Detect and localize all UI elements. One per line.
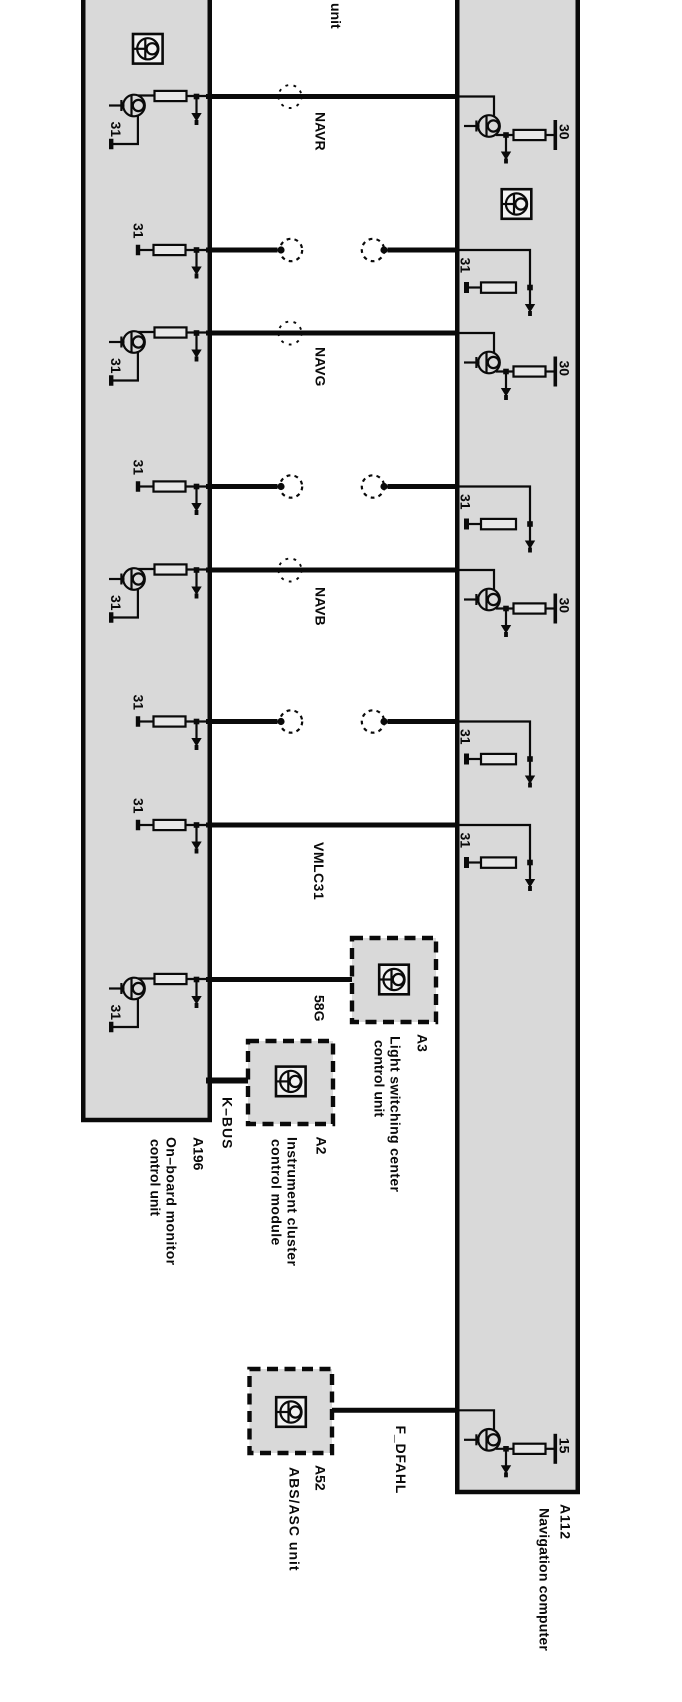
pin terminal dot (right connector)	[380, 718, 387, 725]
module symbol inside A52	[276, 1397, 306, 1427]
wire (internal, resistor to pin)	[187, 95, 214, 97]
wire (internal, circle to ground 31)	[113, 998, 138, 1028]
connector (in-line plug) on wire NAVB	[279, 559, 302, 582]
ground terminal bar 31	[109, 139, 113, 150]
svg-text:Navigation computer: Navigation computer	[537, 1508, 553, 1651]
connector socket (right) on ground wire 31	[362, 239, 384, 261]
wire (internal, resistor to terminal 30)	[546, 607, 555, 609]
control unit A196 On-board monitor control unit (box)	[83, 0, 210, 1120]
junction + continuation arrow (G31A)	[191, 247, 201, 278]
svg-text:31: 31	[108, 122, 124, 138]
control unit A52 ABS/ASC unit (dashed box)	[250, 1369, 333, 1453]
svg-text:Light switching center: Light switching center	[388, 1036, 404, 1192]
junction + continuation arrow (VMLC31)	[525, 860, 535, 891]
wire 31 left segment from A196	[206, 484, 278, 489]
svg-text:NAVG: NAVG	[313, 347, 329, 387]
junction + continuation arrow on wire 58G	[191, 977, 201, 1008]
lamp/driver symbol in A196 on wire NAVR	[109, 95, 145, 117]
wire 58G (A196 to A3)	[206, 977, 358, 982]
junction + continuation arrow (G31C)	[525, 756, 535, 787]
pin terminal dot (right connector)	[380, 246, 387, 253]
wire (internal, resistor to pin)	[187, 331, 214, 333]
wire (internal, circle to ground 31)	[113, 588, 138, 618]
wire (internal, circle to resistor)	[496, 1448, 515, 1450]
wire (internal, resistor to pin)	[186, 824, 214, 826]
resistor (internal series element)	[481, 519, 516, 529]
connector socket (right) on ground wire 31	[362, 475, 384, 497]
wire (internal, circle to resistor)	[138, 331, 156, 333]
ground terminal bar 31 (VMLC31)	[136, 820, 140, 831]
power terminal bar 30	[554, 594, 558, 624]
wire (internal, pin to circle, NAVR)	[456, 97, 494, 118]
wire (internal, resistor to terminal 30)	[546, 370, 555, 372]
control unit A2 Instrument cluster control module (dashed box)	[248, 1041, 333, 1124]
wire (internal, circle to ground 31)	[113, 115, 138, 145]
power terminal bar 30	[554, 120, 558, 150]
resistor (internal series element, G31C)	[154, 716, 186, 726]
ground terminal bar 31	[464, 754, 469, 765]
svg-text:30: 30	[557, 124, 573, 140]
resistor (internal series element, VMLC31)	[154, 820, 186, 830]
svg-text:A3: A3	[415, 1034, 431, 1052]
junction + continuation arrow on wire NAVB	[191, 567, 201, 598]
connector socket (left) on ground wire 31	[280, 710, 302, 732]
wire (internal, circle to resistor)	[138, 568, 156, 570]
resistor (internal series element)	[481, 754, 516, 764]
ground terminal bar 31	[109, 1022, 113, 1033]
lamp/driver symbol in A112 on wire NAVR	[464, 115, 500, 137]
control unit A112 Navigation computer (box)	[457, 0, 578, 1492]
svg-text:31: 31	[131, 223, 147, 239]
svg-text:ABS/ASC unit: ABS/ASC unit	[287, 1467, 303, 1572]
junction + continuation arrow (F_DFAHL)	[501, 1446, 511, 1477]
lamp/driver symbol in A112 on wire F_DFAHL	[464, 1429, 500, 1451]
svg-text:58G: 58G	[312, 995, 328, 1022]
wire (internal, resistor to pin)	[186, 249, 214, 251]
resistor (internal series element)	[514, 603, 546, 613]
wire (internal, bar to resistor)	[140, 824, 156, 826]
wire (internal, bar to resistor)	[140, 720, 156, 722]
svg-text:31: 31	[108, 595, 124, 611]
svg-text:On–board monitor: On–board monitor	[164, 1137, 180, 1266]
lamp/driver symbol in A196 on wire NAVG	[109, 331, 145, 353]
svg-text:30: 30	[557, 361, 573, 377]
lamp/driver symbol in A112 on wire NAVG	[464, 352, 500, 374]
wire (internal, resistor to pin)	[187, 978, 214, 980]
wire (internal, pin to ground branch, G31C)	[456, 722, 530, 760]
svg-text:control unit: control unit	[148, 1139, 164, 1216]
wire 31 left segment from A196	[206, 248, 278, 253]
wire (internal, resistor to ground bar)	[466, 523, 482, 525]
junction + continuation arrow (G31B)	[191, 484, 201, 515]
power terminal bar 30	[554, 357, 558, 387]
svg-text:15: 15	[557, 1438, 573, 1454]
control unit A3 Light switching center control unit (dashed box)	[352, 938, 436, 1022]
wire (internal, circle to ground 31)	[113, 351, 138, 381]
connector socket (left) on ground wire 31	[280, 475, 302, 497]
wire 31 left segment from A196	[206, 719, 278, 724]
connector (in-line plug) on wire NAVG	[279, 322, 302, 345]
wire (internal, circle to resistor)	[496, 607, 515, 609]
wire (internal, pin to ground branch, VMLC31)	[456, 825, 530, 863]
svg-text:VMLC31: VMLC31	[311, 842, 327, 900]
resistor (internal series element, G31A)	[154, 245, 186, 255]
wire (internal, circle to resistor)	[138, 977, 156, 979]
wire (internal, resistor to ground bar)	[466, 286, 482, 288]
ground terminal bar 31 (G31C)	[136, 716, 140, 727]
pin terminal dot (left connector)	[277, 718, 284, 725]
svg-text:A196: A196	[191, 1137, 207, 1171]
wire 31 right segment to A112	[388, 719, 459, 724]
wire (internal, circle to resistor)	[496, 134, 515, 136]
wire (internal, resistor to terminal 15)	[546, 1448, 555, 1450]
wire NAVB (NAVB net, A196 to A112)	[206, 568, 458, 573]
wire (internal, pin to ground branch, G31B)	[456, 487, 530, 525]
wire (internal, pin to circle, F_DFAHL)	[456, 1410, 494, 1431]
internal module symbol (A112)	[502, 189, 532, 219]
svg-text:NAVB: NAVB	[313, 587, 329, 626]
wire (internal, bar to resistor)	[140, 485, 156, 487]
svg-text:31: 31	[458, 729, 474, 745]
junction + continuation arrow (VMLC31)	[191, 822, 201, 853]
pin terminal dot (right connector)	[380, 483, 387, 490]
power terminal bar 15	[554, 1434, 558, 1464]
resistor (internal series element, NAVR)	[155, 91, 187, 101]
pin terminal dot (left connector)	[277, 483, 284, 490]
wire (internal, pin to circle, NAVB)	[456, 570, 494, 591]
svg-text:31: 31	[458, 258, 474, 274]
resistor (internal series element, NAVG)	[155, 327, 187, 337]
wire (internal, resistor to ground bar)	[466, 861, 482, 863]
wire (internal, pin to circle, NAVG)	[456, 333, 494, 354]
lamp/driver symbol in A196 on wire NAVB	[109, 568, 145, 590]
wire K-BUS (A196 to A2)	[206, 1078, 252, 1084]
svg-text:31: 31	[458, 833, 474, 849]
resistor (internal series element, NAVB)	[155, 564, 187, 574]
junction + continuation arrow on wire NAVR	[191, 94, 201, 125]
wire (internal, resistor to pin)	[187, 568, 214, 570]
resistor (internal series element)	[481, 282, 516, 292]
svg-text:31: 31	[131, 798, 147, 814]
resistor (internal series element, G31B)	[154, 481, 186, 491]
svg-text:control unit: control unit	[372, 1040, 388, 1117]
module symbol inside A2	[276, 1067, 306, 1097]
connector socket (right) on ground wire 31	[362, 710, 384, 732]
junction + continuation arrow (G31C)	[191, 719, 201, 750]
junction + continuation arrow (G31B)	[525, 521, 535, 552]
svg-text:F_DFAHL: F_DFAHL	[393, 1426, 409, 1495]
wire (internal, pin to ground branch, G31A)	[456, 250, 530, 288]
ground terminal bar 31	[109, 612, 113, 623]
resistor (internal series element)	[481, 857, 516, 867]
ground terminal bar 31	[464, 519, 469, 530]
junction + continuation arrow (G31A)	[525, 285, 535, 316]
svg-text:31: 31	[458, 494, 474, 510]
svg-text:A112: A112	[558, 1504, 574, 1540]
connector (in-line plug) on wire NAVR	[279, 85, 302, 108]
junction + continuation arrow (NAVR)	[501, 132, 511, 163]
svg-text:31: 31	[108, 358, 124, 374]
ground terminal bar 31	[109, 375, 113, 386]
connector socket (left) on ground wire 31	[280, 239, 302, 261]
wire NAVR (NAVR net, A196 to A112)	[206, 94, 458, 99]
resistor (internal series element)	[514, 130, 546, 140]
svg-text:A2: A2	[314, 1137, 330, 1155]
internal module symbol (A196)	[133, 34, 163, 64]
svg-text:control module: control module	[269, 1139, 285, 1246]
wire 31 right segment to A112	[388, 484, 459, 489]
lamp/driver symbol in A196 on wire 58G	[109, 978, 145, 1000]
svg-text:Instrument cluster: Instrument cluster	[285, 1137, 301, 1266]
wire VMLC31 (A196 to A112)	[206, 823, 458, 828]
wire (internal, resistor to ground bar)	[466, 758, 482, 760]
wire (internal, resistor to pin)	[186, 720, 214, 722]
svg-text:K–BUS: K–BUS	[220, 1097, 236, 1149]
ground terminal bar 31	[464, 857, 469, 868]
module symbol inside A3	[379, 965, 409, 995]
svg-text:31: 31	[108, 1005, 124, 1021]
svg-text:31: 31	[131, 460, 147, 476]
wire F_DFAHL (A52 to A112)	[328, 1408, 458, 1413]
junction + continuation arrow on wire NAVG	[191, 330, 201, 361]
wire NAVG (NAVG net, A196 to A112)	[206, 331, 458, 336]
wire 31 right segment to A112	[388, 248, 459, 253]
wire (internal, bar to resistor)	[140, 249, 156, 251]
svg-text:unit: unit	[328, 3, 344, 29]
svg-text:30: 30	[557, 598, 573, 614]
resistor (internal series element, 58G)	[155, 974, 187, 984]
wire (internal, circle to resistor)	[138, 94, 156, 96]
wire (internal, resistor to pin)	[186, 485, 214, 487]
resistor (internal series element)	[514, 1444, 546, 1454]
wire (internal, resistor to terminal 30)	[546, 134, 555, 136]
junction + continuation arrow (NAVB)	[501, 606, 511, 637]
wire (internal, circle to resistor)	[496, 370, 515, 372]
svg-text:A52: A52	[313, 1465, 329, 1491]
ground terminal bar 31 (G31A)	[136, 245, 140, 256]
ground terminal bar 31 (G31B)	[136, 481, 140, 492]
resistor (internal series element)	[514, 366, 546, 376]
lamp/driver symbol in A112 on wire NAVB	[464, 589, 500, 611]
svg-text:NAVR: NAVR	[313, 112, 329, 151]
ground terminal bar 31	[464, 282, 469, 293]
pin terminal dot (left connector)	[277, 246, 284, 253]
junction + continuation arrow (NAVG)	[501, 369, 511, 400]
svg-text:31: 31	[131, 695, 147, 711]
